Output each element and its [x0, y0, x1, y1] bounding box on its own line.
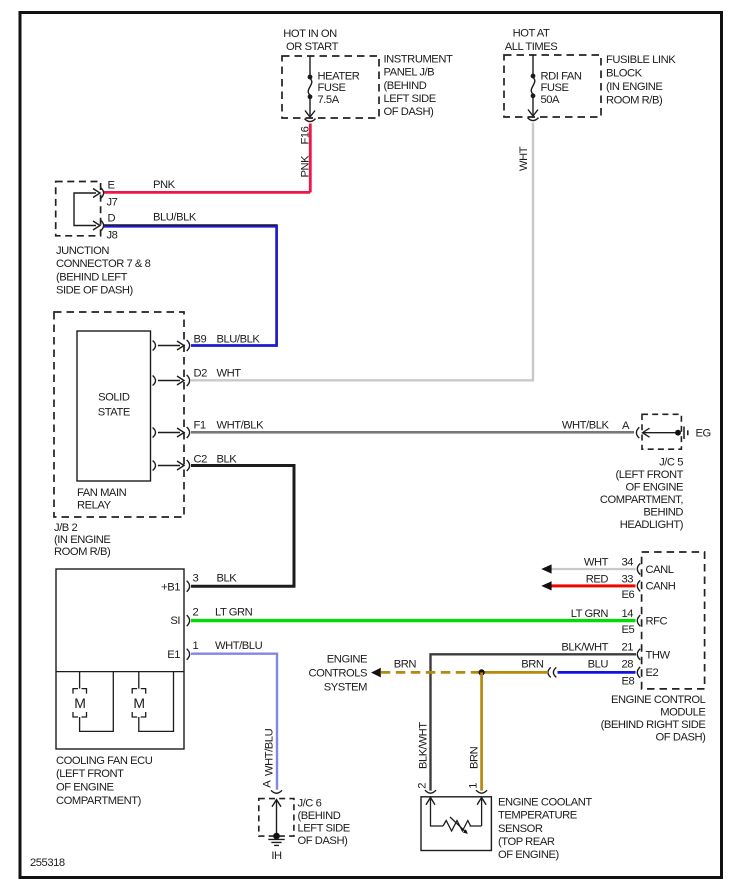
motor M2 wiring loop	[139, 672, 174, 732]
svg-text:LEFT SIDE: LEFT SIDE	[384, 93, 436, 105]
svg-text:(TOP REAR: (TOP REAR	[498, 836, 555, 848]
svg-text:OF ENGINE: OF ENGINE	[626, 482, 684, 494]
pin D female arc	[101, 220, 104, 231]
svg-text:HEADLIGHT): HEADLIGHT)	[620, 519, 684, 531]
ECU internal divider	[56, 671, 184, 673]
svg-text:2: 2	[417, 783, 429, 789]
svg-text:EG: EG	[696, 428, 711, 440]
svg-text:OF ENGINE: OF ENGINE	[56, 782, 114, 794]
svg-text:FUSE: FUSE	[318, 82, 346, 94]
wire BLU/BLK black stripe	[104, 224, 278, 226]
J/C 6 label	[298, 798, 350, 848]
sensor label	[498, 796, 592, 861]
svg-text:OF DASH): OF DASH)	[298, 835, 349, 847]
svg-text:BLK/WHT: BLK/WHT	[561, 642, 608, 654]
pin RFC female arc	[637, 615, 640, 626]
svg-text:E: E	[108, 180, 115, 192]
sensor internal wiring	[431, 798, 482, 827]
svg-text:7.5A: 7.5A	[318, 94, 340, 106]
svg-text:(BEHIND LEFT: (BEHIND LEFT	[56, 271, 128, 283]
motor M1 wiring loop	[80, 672, 114, 732]
svg-text:E6: E6	[622, 589, 635, 601]
svg-text:BLK/WHT: BLK/WHT	[418, 722, 430, 769]
svg-text:COMPARTMENT,: COMPARTMENT,	[600, 494, 683, 506]
svg-text:E2: E2	[646, 667, 659, 679]
wire WHT vertical from fusible link to D2	[191, 123, 533, 381]
junction connector 7 & 8 dashed box	[56, 182, 101, 236]
svg-text:E8: E8	[622, 675, 635, 687]
wire BRN dashed to engine controls system	[381, 671, 482, 674]
svg-text:J7: J7	[107, 197, 118, 209]
connector A arrow	[643, 428, 650, 437]
svg-text:D2: D2	[194, 368, 208, 380]
pin C2 connector	[153, 460, 190, 471]
thermistor zigzag	[443, 821, 471, 832]
svg-text:BLU/BLK: BLU/BLK	[217, 334, 261, 346]
motor M2 bracket box	[132, 689, 146, 717]
svg-text:M: M	[133, 695, 144, 711]
ground symbol IH	[268, 839, 284, 845]
svg-text:21: 21	[622, 642, 634, 654]
fusible link block dashed box	[504, 55, 601, 117]
svg-text:BLOCK: BLOCK	[606, 67, 643, 79]
svg-text:BLK: BLK	[217, 454, 238, 466]
svg-text:+B1: +B1	[161, 582, 180, 594]
sensor pin 2 arrow up	[426, 798, 435, 805]
ground dot	[273, 833, 280, 840]
svg-text:WHT: WHT	[518, 146, 530, 171]
ECM label	[601, 694, 707, 743]
svg-text:HEATER: HEATER	[318, 70, 360, 82]
svg-text:STATE: STATE	[98, 406, 130, 418]
svg-text:WHT/BLU: WHT/BLU	[215, 640, 263, 652]
pin CANL female arc	[637, 564, 640, 575]
instrument panel label	[384, 53, 453, 118]
svg-text:OR START: OR START	[286, 41, 339, 53]
svg-text:IH: IH	[271, 850, 282, 862]
svg-text:BEHIND: BEHIND	[643, 507, 683, 519]
svg-text:1: 1	[193, 640, 199, 652]
pin E female arc	[101, 188, 104, 199]
svg-text:BRN: BRN	[521, 659, 544, 671]
svg-text:CANL: CANL	[646, 564, 674, 576]
svg-text:34: 34	[622, 556, 634, 568]
engine coolant temperature sensor box	[421, 797, 491, 851]
svg-text:LEFT SIDE: LEFT SIDE	[298, 823, 350, 835]
sensor pin 1 connector arc	[476, 790, 487, 793]
svg-text:LT GRN: LT GRN	[215, 607, 253, 619]
svg-text:SENSOR: SENSOR	[498, 823, 543, 835]
junction connector label	[56, 245, 151, 297]
svg-text:RDI FAN: RDI FAN	[541, 70, 582, 82]
svg-text:A: A	[622, 420, 630, 432]
ECM dashed box	[642, 552, 705, 689]
relay label FAN MAIN RELAY	[77, 487, 127, 512]
junction connector internal bracket	[74, 193, 96, 226]
pin E2 female arc	[637, 667, 640, 678]
EG terminal bars	[684, 427, 688, 440]
wire WHT/BLU from E1 to J/C 6	[191, 654, 277, 790]
connector F16 female arc	[305, 119, 316, 122]
pin B9 connector	[153, 340, 190, 351]
svg-text:(BEHIND: (BEHIND	[384, 80, 427, 92]
junction dot BRN	[479, 669, 485, 675]
wire BLK from C2 to +B1	[191, 466, 294, 587]
svg-text:FUSE: FUSE	[541, 82, 569, 94]
svg-text:TEMPERATURE: TEMPERATURE	[498, 810, 577, 822]
svg-text:PNK: PNK	[153, 179, 176, 191]
svg-text:(IN ENGINE: (IN ENGINE	[54, 534, 110, 546]
wire LT GRN from SI to RFC	[191, 619, 636, 622]
inline connector arcs BRN/BLU	[548, 667, 556, 677]
connector arc at J/C 6	[271, 790, 282, 793]
svg-text:WHT/BLU: WHT/BLU	[264, 728, 276, 776]
svg-text:C2: C2	[194, 454, 208, 466]
fuse HEATER FUSE 7.5A	[305, 56, 315, 117]
svg-text:SOLID: SOLID	[98, 392, 130, 404]
pin +B1 female arc	[187, 581, 190, 592]
junction dot EG	[675, 430, 681, 436]
svg-text:SIDE OF DASH): SIDE OF DASH)	[56, 285, 134, 297]
svg-text:SYSTEM: SYSTEM	[324, 681, 367, 693]
svg-text:A: A	[262, 780, 274, 788]
svg-text:CONTROLS: CONTROLS	[308, 668, 367, 680]
sensor pin 1 arrow up	[477, 798, 486, 805]
svg-text:50A: 50A	[541, 94, 561, 106]
wire BRN vertical to sensor pin 1	[480, 672, 483, 790]
svg-text:BRN: BRN	[394, 659, 417, 671]
arrow to engine controls system	[371, 668, 381, 678]
node HOT AT ALL TIMES label	[505, 28, 558, 53]
cooling fan ECU label	[56, 755, 153, 807]
svg-text:(BEHIND: (BEHIND	[298, 810, 341, 822]
cooling fan ECU box	[56, 569, 184, 749]
svg-text:CONNECTOR 7 & 8: CONNECTOR 7 & 8	[56, 258, 151, 270]
J/B 2 label	[54, 522, 111, 558]
svg-text:(LEFT FRONT: (LEFT FRONT	[615, 469, 683, 481]
svg-text:2: 2	[193, 607, 199, 619]
engine controls system label	[308, 654, 367, 694]
svg-text:J/C 6: J/C 6	[298, 798, 322, 810]
wire RED from CANH	[551, 584, 636, 587]
sensor pin 2 connector arc	[425, 790, 436, 793]
svg-text:ALL TIMES: ALL TIMES	[505, 41, 558, 53]
svg-text:ROOM R/B): ROOM R/B)	[54, 546, 111, 558]
svg-text:E5: E5	[622, 624, 635, 636]
wire WHT/BLK from F1 to J/C 5	[191, 431, 634, 432]
svg-text:ROOM R/B): ROOM R/B)	[606, 94, 663, 106]
svg-text:RED: RED	[586, 573, 609, 585]
fuse value label RDI FAN FUSE 50A	[541, 70, 582, 106]
wire BLU/BLK from J8 to B9	[104, 226, 277, 345]
relay label SOLID STATE	[98, 392, 130, 419]
svg-text:CANH: CANH	[646, 581, 676, 593]
svg-text:28: 28	[622, 659, 634, 671]
motor M1 bracket box	[73, 689, 87, 717]
J/C 5 label	[600, 457, 684, 532]
svg-text:LT GRN: LT GRN	[571, 608, 609, 620]
thermistor arrow	[450, 817, 466, 832]
svg-text:ENGINE COOLANT: ENGINE COOLANT	[498, 796, 592, 808]
svg-text:WHT/BLK: WHT/BLK	[217, 420, 265, 432]
svg-text:OF DASH): OF DASH)	[384, 106, 435, 118]
svg-text:J/C 5: J/C 5	[659, 457, 683, 469]
fuse RDI FAN FUSE 50A	[528, 55, 538, 116]
svg-text:(BEHIND RIGHT SIDE: (BEHIND RIGHT SIDE	[601, 719, 706, 731]
svg-text:E1: E1	[167, 649, 180, 661]
pin F1 connector	[153, 427, 190, 438]
svg-text:255318: 255318	[30, 857, 65, 869]
svg-text:B9: B9	[194, 334, 207, 346]
wire inside J/C 5	[643, 432, 679, 434]
instrument panel J/B dashed box	[282, 56, 379, 118]
svg-text:1: 1	[468, 783, 480, 789]
svg-text:14: 14	[622, 608, 634, 620]
wire BLU from E2	[558, 671, 636, 674]
svg-text:HOT IN ON: HOT IN ON	[283, 28, 337, 40]
fuse value label HEATER FUSE 7.5A	[318, 70, 360, 106]
pin E arrow	[93, 189, 100, 198]
relay solid state box	[77, 331, 151, 481]
arrow CANH	[541, 581, 551, 590]
svg-text:PANEL J/B: PANEL J/B	[384, 67, 435, 79]
svg-text:D: D	[108, 213, 116, 225]
svg-text:HOT AT: HOT AT	[513, 28, 550, 40]
arrow CANL	[541, 564, 551, 573]
wire PNK from F16 to junction connector E	[104, 124, 310, 193]
connector arc below fusible link	[528, 118, 539, 121]
J/C 6 dashed box	[259, 799, 294, 837]
node HOT IN ON OR START label	[283, 28, 338, 53]
pin E1 female arc	[187, 649, 190, 660]
J/C 6 arrow up	[272, 800, 281, 807]
fusible link block label	[606, 54, 676, 107]
svg-text:WHT/BLK: WHT/BLK	[562, 420, 610, 432]
svg-text:BRN: BRN	[469, 746, 481, 769]
svg-text:THW: THW	[646, 649, 671, 661]
J/C 5 dashed box	[642, 414, 681, 449]
svg-text:WHT: WHT	[584, 556, 609, 568]
svg-text:FUSIBLE LINK: FUSIBLE LINK	[606, 54, 676, 66]
svg-text:BLK: BLK	[217, 573, 238, 585]
pin CANH female arc	[637, 580, 640, 591]
svg-text:ENGINE: ENGINE	[327, 654, 367, 666]
wire inside J/C 6	[276, 800, 278, 836]
svg-text:BLU/BLK: BLU/BLK	[153, 212, 197, 224]
svg-text:(IN ENGINE: (IN ENGINE	[606, 81, 662, 93]
svg-text:RFC: RFC	[646, 615, 668, 627]
svg-text:J/B 2: J/B 2	[54, 522, 77, 534]
svg-text:COMPARTMENT): COMPARTMENT)	[56, 795, 142, 807]
svg-text:ENGINE CONTROL: ENGINE CONTROL	[611, 694, 706, 706]
pin SI female arc	[187, 615, 190, 626]
svg-text:J8: J8	[107, 230, 118, 242]
wire BRN solid from junction to inline connector	[482, 671, 548, 674]
svg-text:WHT: WHT	[217, 368, 242, 380]
svg-text:RELAY: RELAY	[77, 500, 112, 512]
wire BLK/WHT from THW to sensor	[431, 654, 637, 790]
svg-text:33: 33	[622, 573, 634, 585]
svg-text:M: M	[74, 695, 85, 711]
svg-text:OF ENGINE): OF ENGINE)	[498, 849, 559, 861]
svg-text:(LEFT FRONT: (LEFT FRONT	[56, 768, 124, 780]
relay J/B 2 dashed box	[54, 312, 184, 517]
svg-text:F1: F1	[194, 420, 206, 432]
svg-text:INSTRUMENT: INSTRUMENT	[384, 53, 453, 65]
pin D2 connector	[153, 375, 190, 386]
svg-text:MODULE: MODULE	[660, 706, 705, 718]
pin THW female arc	[637, 649, 640, 660]
svg-text:FAN MAIN: FAN MAIN	[77, 487, 127, 499]
wire WHT from CANL	[551, 568, 636, 570]
svg-text:COOLING FAN ECU: COOLING FAN ECU	[56, 755, 153, 767]
svg-text:JUNCTION: JUNCTION	[56, 245, 109, 257]
connector A female arc	[636, 427, 639, 438]
svg-text:SI: SI	[170, 615, 180, 627]
svg-text:3: 3	[193, 573, 199, 585]
svg-text:BLU: BLU	[588, 659, 609, 671]
pin D arrow	[93, 221, 100, 230]
svg-text:OF DASH): OF DASH)	[656, 732, 707, 744]
